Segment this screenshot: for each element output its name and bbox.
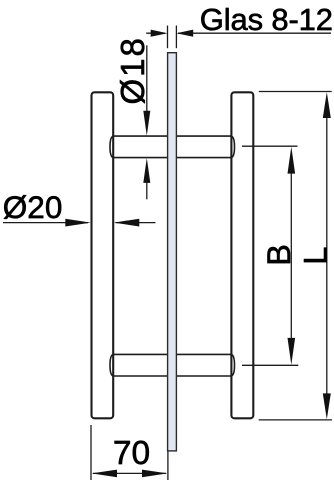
svg-text:L: L xyxy=(297,247,333,265)
arrowhead pointing left to bar right edge xyxy=(114,219,140,227)
dimension line xyxy=(290,164,292,348)
dimension L (overall handle length) xyxy=(259,92,332,420)
arrowhead right xyxy=(142,470,168,478)
arrowhead up xyxy=(288,147,296,174)
arrowhead pointing up to crossbar bottom xyxy=(143,158,150,183)
glass pane xyxy=(168,53,177,451)
dimension Ø18 (crossbar diameter) xyxy=(143,45,150,199)
svg-text:B: B xyxy=(261,244,297,266)
lower crossbar xyxy=(110,354,235,376)
svg-text:Ø18: Ø18 xyxy=(114,36,151,104)
upper crossbar xyxy=(110,136,235,158)
arrowhead pointing right to bar left edge xyxy=(65,219,91,227)
dimension: glass thickness (Glas 8-12) xyxy=(146,26,331,49)
arrowhead down xyxy=(288,338,296,365)
svg-text:Glas 8-12: Glas 8-12 xyxy=(200,2,333,37)
svg-text:Ø20: Ø20 xyxy=(3,189,63,225)
right tail line under text xyxy=(178,32,331,34)
right handle bar xyxy=(231,92,253,418)
arrowhead down xyxy=(323,393,331,419)
right extension line xyxy=(167,452,169,480)
arrowhead left xyxy=(92,470,118,478)
left handle bar xyxy=(92,92,114,418)
upper leader line xyxy=(146,45,148,117)
extension tick left of glass xyxy=(167,26,169,49)
right tail line xyxy=(116,222,156,224)
dimension 70 (bar axis to glass) xyxy=(91,425,168,480)
top extension line xyxy=(242,145,298,147)
bottom extension line xyxy=(259,419,332,421)
dimension B (between crossbar centers) xyxy=(242,146,298,365)
left extension line xyxy=(90,425,92,480)
dimension line xyxy=(93,472,166,474)
right arrowhead pointing left xyxy=(176,30,193,37)
left tail line xyxy=(146,32,165,34)
arrowhead up xyxy=(323,92,331,118)
left arrowhead pointing right xyxy=(151,30,168,37)
left tail line xyxy=(3,222,88,224)
dimension Ø20 (bar diameter) xyxy=(3,219,156,227)
top extension line xyxy=(259,91,332,93)
svg-text:70: 70 xyxy=(113,435,150,472)
lower leader line xyxy=(146,178,148,199)
dimension line xyxy=(326,109,328,403)
extension tick right of glass xyxy=(175,26,177,49)
bottom extension line xyxy=(242,364,298,366)
arrowhead pointing down to crossbar top xyxy=(143,111,150,136)
